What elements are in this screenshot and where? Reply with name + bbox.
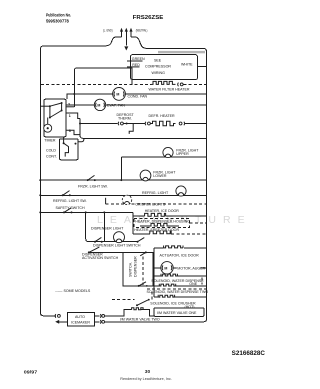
wire bottom return to bus bbox=[105, 316, 207, 322]
dispenser housing dashed box bbox=[134, 219, 189, 228]
motor cond fan bbox=[113, 88, 126, 101]
timer terminal 3 bbox=[66, 130, 80, 134]
lamp refrig light bbox=[176, 186, 186, 196]
svg-text:REFRIG. LIGHT: REFRIG. LIGHT bbox=[142, 191, 169, 195]
wire cond fan rung bbox=[67, 94, 207, 99]
switch dashed icemaker valve bbox=[112, 292, 152, 306]
wire crusher rung bbox=[154, 296, 158, 298]
coil solenoid water dispense one bbox=[161, 274, 177, 276]
wire auger rung bbox=[154, 267, 161, 269]
wire white to bus bbox=[198, 66, 207, 68]
connector bbox=[99, 314, 102, 318]
svg-text:SEE: SEE bbox=[154, 58, 162, 62]
wire dispense two rung bbox=[154, 285, 159, 287]
resistor heater ice door bbox=[145, 213, 166, 216]
wire icemaker arrow out bbox=[59, 321, 67, 323]
left bus bbox=[40, 46, 56, 316]
wire freezer door rung bbox=[133, 233, 150, 235]
coil solenoid ice crusher bbox=[158, 295, 174, 297]
switch rocker bottom bbox=[138, 282, 148, 287]
node cond fan tap bbox=[73, 93, 75, 95]
switch activation right bbox=[140, 251, 147, 255]
svg-text:UPPER: UPPER bbox=[176, 152, 189, 156]
svg-text:3: 3 bbox=[69, 129, 71, 133]
coil im water valve two bbox=[132, 308, 144, 310]
connector defr heater right bbox=[179, 122, 182, 125]
wire frzr lower rung bbox=[40, 179, 206, 181]
svg-text:Rendered by LeadVenture, Inc.: Rendered by LeadVenture, Inc. bbox=[120, 376, 172, 381]
dashed separator bbox=[147, 288, 207, 290]
svg-text:M: M bbox=[116, 93, 119, 97]
wire icemaker out top bbox=[94, 315, 99, 317]
svg-text:FRS26ZSE: FRS26ZSE bbox=[133, 15, 164, 21]
svg-text:THERM.: THERM. bbox=[118, 117, 132, 121]
plug neutral prong bbox=[129, 28, 132, 37]
wire dispenser lamp rung bbox=[86, 212, 138, 241]
wire inner feed bbox=[74, 68, 132, 107]
wire activation rung bbox=[89, 251, 154, 253]
label MOTOR, AUGER bbox=[177, 266, 201, 270]
compressor box bbox=[130, 55, 197, 80]
svg-text:TIMER: TIMER bbox=[44, 138, 56, 142]
svg-text:I/M WATER VALVE TWO: I/M WATER VALVE TWO bbox=[120, 318, 160, 322]
svg-text:Publication No.: Publication No. bbox=[46, 13, 71, 18]
wire ice door to bus bbox=[166, 215, 207, 217]
scan artifact band bbox=[158, 51, 205, 53]
svg-text:M: M bbox=[97, 104, 100, 108]
defrost thermostat bbox=[123, 123, 145, 134]
svg-text:ONE: ONE bbox=[189, 282, 197, 286]
wire bus to timer common bbox=[40, 105, 50, 107]
lamp dispenser light bbox=[114, 232, 125, 243]
wire water filter heater dashed left bbox=[41, 83, 152, 85]
wire cold control out bbox=[78, 138, 84, 142]
svg-text:DISPENSER LIGHT SWITCH: DISPENSER LIGHT SWITCH bbox=[93, 243, 141, 247]
plug ground prong bbox=[125, 28, 128, 46]
coil solenoid water dispense two bbox=[159, 284, 175, 286]
wire dispense one rung bbox=[154, 275, 161, 277]
wire actuator to bus bbox=[184, 247, 207, 249]
node safety taps bbox=[85, 211, 87, 213]
wire defr heater to bus bbox=[185, 123, 207, 125]
cold control contacts bbox=[63, 142, 77, 156]
svg-text:M: M bbox=[164, 267, 167, 271]
svg-text:2: 2 bbox=[68, 102, 70, 106]
wire actuator rung bbox=[154, 247, 163, 249]
wire evap fan rung bbox=[66, 104, 207, 106]
ground arrow bbox=[124, 46, 128, 50]
wire heater feed vertical bbox=[132, 216, 134, 234]
wire hot from plug to left bus bbox=[44, 37, 122, 46]
wire refrig rung bbox=[40, 194, 206, 196]
svg-text:5995300778: 5995300778 bbox=[46, 18, 69, 23]
svg-text:ACTUATOR, ICE DOOR: ACTUATOR, ICE DOOR bbox=[160, 253, 200, 257]
resistor heater dispenser housing bbox=[140, 223, 179, 226]
svg-text:DEFR. HEATER: DEFR. HEATER bbox=[149, 114, 175, 118]
resistor heater freezer door bbox=[150, 231, 171, 234]
svg-text:ACTIVATION SWITCH: ACTIVATION SWITCH bbox=[82, 256, 119, 260]
wire crisper tap bbox=[105, 198, 107, 204]
svg-text:CRISPER LIGHTS: CRISPER LIGHTS bbox=[135, 202, 166, 206]
resistor defr heater bbox=[150, 121, 175, 125]
svg-text:DISPENSER: DISPENSER bbox=[134, 256, 138, 277]
timer terminal 2 bbox=[66, 106, 74, 108]
timer motor bbox=[44, 118, 52, 133]
svg-text:SOLENOID, WATER DISPENSE TWO: SOLENOID, WATER DISPENSE TWO bbox=[147, 290, 209, 294]
wire water filter heater dashed right bbox=[183, 83, 206, 85]
svg-text:GREEN: GREEN bbox=[132, 57, 145, 61]
dashed divider in box bbox=[142, 257, 144, 285]
svg-text:WIRING: WIRING bbox=[152, 71, 166, 75]
svg-text:SAFETY SWITCH: SAFETY SWITCH bbox=[56, 206, 85, 210]
lamp frzr light upper bbox=[163, 147, 173, 157]
svg-text:SWITCH,: SWITCH, bbox=[129, 262, 133, 277]
cold control box bbox=[60, 139, 79, 160]
svg-text:S2166828C: S2166828C bbox=[232, 351, 266, 357]
svg-text:CONT.: CONT. bbox=[46, 155, 57, 159]
icemaker box bbox=[67, 312, 94, 326]
wire green stub bbox=[127, 60, 143, 62]
svg-text:(NEUTRAL): (NEUTRAL) bbox=[136, 28, 148, 32]
svg-text:HEATER, ICE DOOR: HEATER, ICE DOOR bbox=[145, 209, 179, 213]
svg-text:EVAP. FAN: EVAP. FAN bbox=[107, 103, 125, 107]
svg-text:WHITE: WHITE bbox=[181, 62, 193, 66]
svg-text:09/97: 09/97 bbox=[24, 370, 38, 375]
im water valve one box bbox=[154, 308, 204, 317]
wire neutral from plug to right bus bbox=[131, 37, 203, 49]
switch safety bbox=[63, 208, 73, 214]
wire auger to bus bbox=[173, 267, 206, 269]
wire dashed stub right of dispense one bbox=[201, 278, 203, 285]
wire timer to cold control bbox=[63, 137, 65, 143]
svg-text:COLD: COLD bbox=[46, 149, 56, 153]
svg-text:30: 30 bbox=[145, 369, 151, 375]
wire icemaker out bottom bbox=[94, 321, 99, 323]
wire dispense one to bus bbox=[175, 275, 206, 277]
wire red stub bbox=[127, 66, 140, 68]
wire solenoid left bus bbox=[153, 248, 155, 297]
wire heater ice door bbox=[133, 212, 145, 216]
connector defr heater left bbox=[144, 122, 147, 126]
svg-text:FRZR. LIGHT SW.: FRZR. LIGHT SW. bbox=[78, 184, 108, 188]
wire dispenser light feed bbox=[103, 212, 105, 241]
resistor water filter heater bbox=[152, 81, 176, 84]
plug L1 prong bbox=[120, 28, 123, 37]
svg-text:COND. FAN: COND. FAN bbox=[128, 94, 148, 98]
switch dispenser light switch arm bbox=[137, 238, 145, 243]
wire safety rung bbox=[40, 211, 133, 213]
wire freezer door dashed to bus bbox=[171, 233, 206, 235]
wire crusher to bus bbox=[173, 296, 207, 298]
wire timer to cold control line bbox=[80, 119, 207, 139]
motor auger bbox=[161, 262, 173, 274]
coil actuator ice door bbox=[164, 246, 183, 248]
timer contacts bbox=[49, 102, 63, 119]
wire frzr upper rung bbox=[121, 156, 206, 158]
svg-text:ICEMAKER: ICEMAKER bbox=[71, 320, 90, 324]
switch refrig light bbox=[62, 191, 71, 197]
svg-text:LOWER: LOWER bbox=[153, 174, 167, 178]
lamp crisper dashed bbox=[122, 195, 131, 204]
lamp frzr light lower bbox=[140, 170, 151, 181]
connector icemaker left bbox=[54, 314, 57, 318]
svg-text:WATER FILTER HEATER: WATER FILTER HEATER bbox=[149, 88, 190, 92]
svg-text:MOTOR, AUGER: MOTOR, AUGER bbox=[177, 266, 205, 270]
wire defrost rung bbox=[80, 123, 118, 125]
svg-text:COMPRESSOR: COMPRESSOR bbox=[145, 65, 171, 69]
svg-text:DISPENSER LIGHT: DISPENSER LIGHT bbox=[91, 226, 124, 230]
svg-text:HEATER, DISPENSER HOUSING: HEATER, DISPENSER HOUSING bbox=[135, 220, 190, 224]
connector bbox=[177, 83, 180, 87]
connector bbox=[99, 320, 102, 324]
wire valve two bump bbox=[105, 310, 132, 316]
svg-text:RED: RED bbox=[132, 63, 140, 67]
timer box bbox=[44, 99, 66, 137]
wire dispenser housing dashed to bus bbox=[190, 222, 207, 224]
svg-text:I/M WATER VALVE ONE: I/M WATER VALVE ONE bbox=[157, 311, 197, 315]
switch activation left bbox=[88, 247, 100, 253]
wire crisper dashed rung bbox=[106, 203, 207, 205]
wire dispense two to bus bbox=[174, 285, 207, 287]
svg-text:1: 1 bbox=[69, 114, 71, 118]
switch dispenser lamp bbox=[94, 237, 103, 242]
switch frzr light bbox=[87, 175, 96, 181]
svg-text:AUTO: AUTO bbox=[75, 315, 85, 319]
connector defrost left bbox=[117, 122, 120, 126]
svg-text:REFRIG. LIGHT SW.: REFRIG. LIGHT SW. bbox=[53, 199, 87, 203]
timer terminal 1 bbox=[66, 113, 80, 119]
svg-text:(L. GND): (L. GND) bbox=[103, 28, 113, 32]
dispenser rocker switch box bbox=[123, 252, 153, 286]
wire vertical frzr feed bbox=[120, 157, 122, 180]
svg-text:------ SOME MODELS: ------ SOME MODELS bbox=[55, 289, 91, 293]
motor evap fan bbox=[94, 99, 105, 110]
right bus bbox=[203, 48, 207, 316]
